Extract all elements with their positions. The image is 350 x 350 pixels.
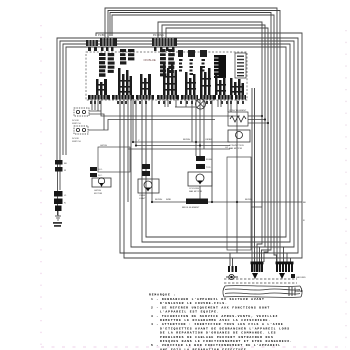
convection fan motor M3 (228, 130, 250, 142)
terminal list box (235, 53, 246, 78)
ground lug (291, 274, 295, 278)
wire stub to terminal pin 8 (290, 258, 292, 264)
wire outer loop 5 (96, 33, 302, 258)
control board component stack B (120, 49, 134, 65)
wire L1 to terminal (105, 8, 277, 264)
selector switch stack S8 (230, 78, 244, 95)
chassis dashed line 1 (224, 278, 297, 280)
svg-text:P1 BK: P1 BK (98, 34, 105, 37)
wire ground cluster drop 2 (232, 258, 234, 266)
wire ground cluster drop 1 (229, 253, 231, 266)
svg-text:SWITCH: SWITCH (72, 123, 81, 125)
svg-text:BK/WH: BK/WH (245, 199, 253, 201)
wire door switch feed 1 (89, 111, 240, 116)
selector switch stack S1 (96, 79, 107, 95)
wire door switch feed 2 (89, 114, 104, 130)
svg-text:BROIL ELEMENT: BROIL ELEMENT (182, 207, 200, 209)
top-middle connector cluster (152, 38, 177, 51)
selector switch stack S7 (215, 75, 226, 95)
svg-text:FUSE: FUSE (206, 159, 212, 161)
selector switch stack S2 (118, 68, 132, 95)
selector switch stack S5 (185, 72, 196, 95)
svg-text:GROUND: GROUND (296, 277, 306, 279)
oven light box L2 (138, 179, 159, 193)
margin perforation dotted line left (40, 25, 42, 346)
control board component stack C (160, 49, 175, 76)
pin group E (188, 50, 195, 75)
thermal switch mid (196, 164, 205, 169)
bus pin labels row (90, 101, 244, 104)
grounding screw symbol (226, 274, 238, 279)
wire latch verticals (127, 100, 129, 202)
wire lamp column (145, 149, 147, 164)
wire short stubs below bus (164, 100, 166, 107)
svg-text:LIGHT: LIGHT (139, 198, 146, 200)
convection element resistor (228, 112, 248, 126)
wire bundle below bus left (91, 100, 93, 110)
svg-text:OVEN: OVEN (139, 195, 146, 197)
power cord (223, 286, 302, 298)
oven cavity outline (227, 157, 251, 250)
terminal pins left group (228, 266, 237, 272)
margin perforation dotted line right (345, 30, 347, 346)
selector switch stack S6 (200, 66, 211, 95)
svg-text:REMARQUE :: REMARQUE : (149, 293, 176, 297)
svg-text:DOOR: DOOR (72, 138, 79, 140)
wire P2 harness 2 (162, 25, 265, 264)
svg-text:CONVECTION: CONVECTION (229, 145, 244, 147)
svg-text:R/BK: R/BK (166, 199, 172, 201)
wire mid horizontal 1 (133, 141, 230, 143)
wire P2 harness 3 (166, 28, 268, 262)
wire mid bus feeder (151, 100, 153, 202)
selector switch stack S4 (163, 62, 177, 95)
wire stub to terminal pin 7 (286, 253, 288, 264)
svg-text:FAN MOTOR: FAN MOTOR (189, 190, 202, 193)
wire L2 to terminal (108, 11, 280, 265)
wire mid comp feeders (191, 100, 193, 142)
wire P2 harness 1 (158, 22, 262, 264)
wire door switch feed 3 (88, 120, 215, 131)
latch switch pair (90, 167, 97, 177)
left column plug block (54, 191, 63, 211)
svg-text:LATCH: LATCH (100, 144, 107, 147)
pin group F (200, 50, 207, 72)
svg-text:P2 CONN: P2 CONN (153, 34, 164, 37)
wire L3 to terminal (110, 13, 271, 265)
label below end terminal (53, 222, 62, 227)
wire outer loop 3 (63, 44, 290, 242)
svg-text:N.C.: N.C. (98, 175, 103, 177)
svg-text:ON BLUE: ON BLUE (144, 58, 156, 62)
fuse mid (196, 156, 205, 161)
door switch SW2 dashed box (74, 126, 88, 134)
cord end hatching (289, 287, 295, 296)
wire mid horizontal 2 (136, 145, 230, 147)
wire left column spine (58, 160, 61, 215)
selector switch stack S3 (140, 74, 151, 95)
wire mid horizontal 3 (128, 148, 230, 150)
ground strap triangle 2 (279, 273, 285, 279)
svg-text:SWITCH: SWITCH (72, 141, 81, 143)
oven light small pair (142, 164, 150, 176)
pin group D (178, 50, 183, 72)
terminal pins right group (276, 262, 294, 273)
svg-text:FAN MOTOR: FAN MOTOR (229, 147, 242, 150)
svg-text:CASE: CASE (295, 289, 303, 293)
svg-text:LATCH: LATCH (94, 189, 101, 192)
left column component 2 (55, 167, 63, 172)
chassis dashed line 2 (224, 282, 297, 284)
svg-text:DOOR: DOOR (72, 120, 79, 122)
left column end terminal (55, 211, 61, 220)
connector bus row (88, 95, 246, 100)
wire outer loop 1 (57, 38, 298, 253)
svg-text:TOD: TOD (206, 167, 211, 169)
svg-text:N.O.: N.O. (98, 169, 103, 171)
control board component stack A (99, 53, 115, 77)
svg-text:BK/WH: BK/WH (183, 139, 191, 141)
wire mid junction feeders (132, 100, 134, 142)
svg-text:OR/BK: OR/BK (205, 139, 212, 141)
left column component 1 (55, 160, 63, 165)
dashed control housing box (86, 52, 247, 100)
wire resistor leads (248, 115, 262, 117)
wire terminal feed pair 1 (251, 88, 253, 264)
legend REMARQUE (149, 293, 293, 350)
top-left connector cluster (86, 38, 117, 51)
svg-text:MOTOR: MOTOR (94, 193, 103, 195)
cooling fan motor M2 (188, 172, 212, 186)
broil element on line y202 (186, 199, 208, 205)
wire mid bus y202 (152, 201, 302, 203)
margin perforation dotted line bottom (41, 346, 346, 348)
ground strap triangle 1 (252, 273, 258, 279)
wire stub to terminal pin 6 (283, 247, 285, 264)
wire outer loop 2 (60, 41, 294, 247)
terminal pins middle group (251, 262, 264, 273)
wire oven box right edge (251, 100, 262, 207)
door switch SW1 dashed box (74, 108, 89, 116)
wire L4 to terminal (112, 15, 277, 264)
svg-text:COOLING: COOLING (189, 188, 199, 190)
mid junction dots (132, 115, 269, 203)
svg-text:CONV ELEMENT: CONV ELEMENT (229, 110, 247, 112)
relay module K1 (214, 55, 226, 78)
latch assembly box (98, 147, 130, 172)
oven lamp symbol (175, 99, 206, 109)
wire terminal feed pair 2 (254, 88, 256, 264)
door lock motor M1 (92, 178, 111, 187)
wire outer loop 4 (66, 47, 286, 237)
svg-text:BK/WH: BK/WH (155, 199, 163, 201)
